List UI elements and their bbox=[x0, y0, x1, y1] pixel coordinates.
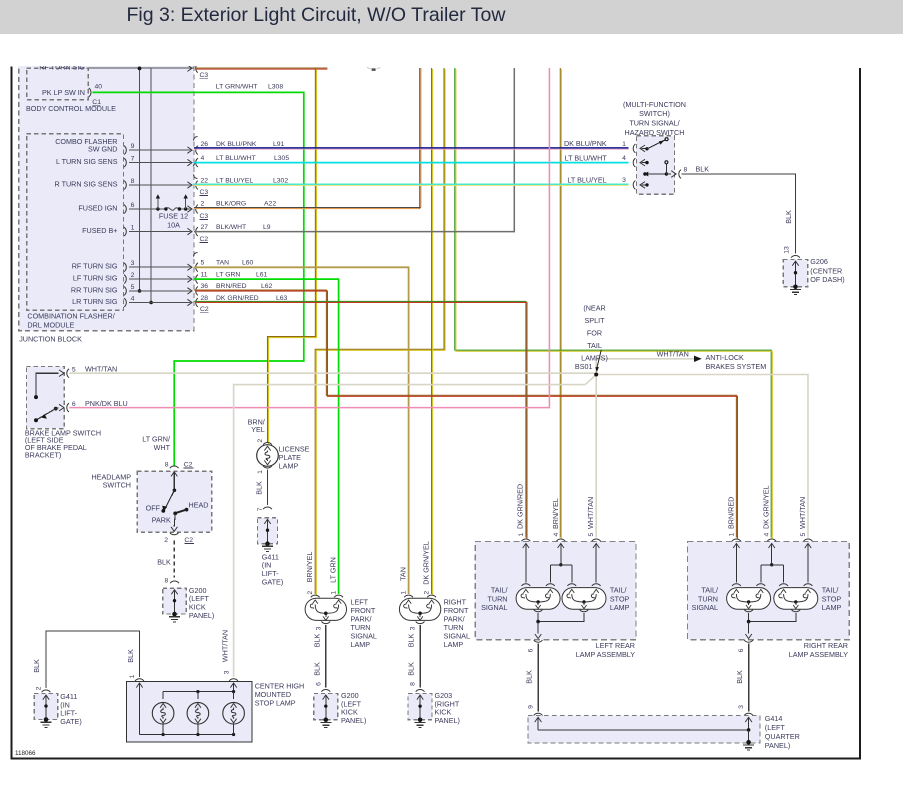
svg-text:1: 1 bbox=[129, 674, 136, 678]
svg-text:TAIL/: TAIL/ bbox=[610, 586, 627, 595]
svg-text:118066: 118066 bbox=[15, 750, 36, 757]
svg-text:STOP: STOP bbox=[610, 594, 630, 603]
svg-text:BS01: BS01 bbox=[575, 362, 593, 371]
svg-text:6: 6 bbox=[72, 401, 76, 408]
svg-text:2: 2 bbox=[131, 272, 135, 279]
svg-text:4: 4 bbox=[131, 296, 135, 303]
svg-text:BLK: BLK bbox=[696, 164, 710, 173]
svg-text:L60: L60 bbox=[242, 260, 254, 267]
svg-text:26: 26 bbox=[201, 141, 209, 148]
svg-text:LT BLU/WHT: LT BLU/WHT bbox=[565, 153, 608, 162]
svg-text:RR TURN SIG: RR TURN SIG bbox=[71, 285, 118, 294]
svg-text:R TURN SIG SENS: R TURN SIG SENS bbox=[55, 179, 118, 188]
svg-text:5: 5 bbox=[131, 284, 135, 291]
svg-text:LAMP ASSEMBLY: LAMP ASSEMBLY bbox=[576, 650, 635, 659]
svg-text:L62: L62 bbox=[261, 283, 273, 290]
svg-text:PANEL): PANEL) bbox=[189, 611, 214, 620]
svg-text:1: 1 bbox=[622, 141, 626, 148]
svg-text:BLK: BLK bbox=[784, 210, 793, 224]
svg-text:DK BLU/PNK: DK BLU/PNK bbox=[216, 141, 257, 148]
svg-text:SPLIT: SPLIT bbox=[585, 316, 606, 325]
svg-text:TURN SIGNAL/: TURN SIGNAL/ bbox=[629, 119, 679, 128]
svg-text:BRN/YEL: BRN/YEL bbox=[305, 552, 314, 583]
svg-text:QUARTER: QUARTER bbox=[765, 732, 800, 741]
svg-text:BLK: BLK bbox=[126, 649, 135, 663]
svg-text:5: 5 bbox=[201, 260, 205, 267]
svg-text:8: 8 bbox=[684, 166, 688, 173]
svg-text:PANEL): PANEL) bbox=[435, 716, 460, 725]
svg-text:BLK: BLK bbox=[312, 662, 321, 676]
svg-text:C3: C3 bbox=[200, 213, 209, 220]
svg-text:BLK/ORG: BLK/ORG bbox=[216, 200, 246, 207]
svg-text:4: 4 bbox=[553, 533, 560, 537]
svg-text:JUNCTION BLOCK: JUNCTION BLOCK bbox=[19, 334, 82, 343]
svg-text:C2: C2 bbox=[200, 306, 209, 313]
svg-text:9: 9 bbox=[527, 705, 534, 709]
svg-text:LAMP: LAMP bbox=[822, 603, 842, 612]
svg-text:LT BLU/YEL: LT BLU/YEL bbox=[216, 177, 253, 184]
svg-text:6: 6 bbox=[131, 202, 135, 209]
svg-text:BRN/RED: BRN/RED bbox=[726, 497, 735, 529]
svg-text:DK GRN/YEL: DK GRN/YEL bbox=[762, 485, 771, 529]
svg-text:G206: G206 bbox=[810, 257, 828, 266]
svg-text:STOP LAMP: STOP LAMP bbox=[255, 698, 296, 707]
svg-text:3: 3 bbox=[622, 177, 626, 184]
svg-text:TAN: TAN bbox=[216, 260, 229, 267]
svg-text:TAIL: TAIL bbox=[587, 341, 602, 350]
svg-text:27: 27 bbox=[201, 224, 209, 231]
svg-text:SIGNAL: SIGNAL bbox=[692, 603, 718, 612]
svg-text:LF TURN SIG: LF TURN SIG bbox=[73, 274, 118, 283]
svg-text:40: 40 bbox=[95, 84, 103, 91]
svg-text:LAMP: LAMP bbox=[351, 640, 371, 649]
svg-text:(LEFT: (LEFT bbox=[765, 723, 786, 732]
svg-text:2: 2 bbox=[423, 591, 430, 595]
svg-text:SIGNAL: SIGNAL bbox=[481, 603, 507, 612]
svg-text:6: 6 bbox=[527, 648, 534, 652]
svg-text:L305: L305 bbox=[274, 155, 289, 162]
svg-text:3: 3 bbox=[738, 705, 745, 709]
svg-text:5: 5 bbox=[800, 533, 807, 537]
svg-text:(NEAR: (NEAR bbox=[583, 304, 605, 313]
svg-text:LAMP: LAMP bbox=[444, 640, 464, 649]
svg-text:(MULTI-FUNCTION: (MULTI-FUNCTION bbox=[623, 100, 686, 109]
svg-text:L308: L308 bbox=[268, 84, 283, 91]
svg-text:BLK: BLK bbox=[735, 670, 744, 684]
svg-text:WHT/TAN: WHT/TAN bbox=[85, 364, 117, 373]
svg-text:LAMP ASSEMBLY: LAMP ASSEMBLY bbox=[789, 650, 848, 659]
svg-text:LT BLU/YEL: LT BLU/YEL bbox=[567, 176, 606, 185]
svg-text:BRACKET): BRACKET) bbox=[25, 451, 61, 460]
svg-text:BRAKES SYSTEM: BRAKES SYSTEM bbox=[706, 362, 767, 371]
svg-text:L63: L63 bbox=[276, 295, 288, 302]
svg-text:TURN: TURN bbox=[488, 594, 508, 603]
svg-text:TAIL/: TAIL/ bbox=[822, 586, 839, 595]
svg-text:LT GRN: LT GRN bbox=[328, 557, 337, 583]
svg-text:RF TURN SIG: RF TURN SIG bbox=[72, 262, 118, 271]
svg-text:28: 28 bbox=[201, 295, 209, 302]
svg-text:LR TURN SIG: LR TURN SIG bbox=[72, 297, 118, 306]
svg-text:C2: C2 bbox=[184, 461, 193, 468]
svg-text:4: 4 bbox=[764, 533, 771, 537]
svg-text:1: 1 bbox=[518, 533, 525, 537]
svg-text:SWITCH): SWITCH) bbox=[639, 109, 670, 118]
svg-text:1: 1 bbox=[330, 591, 337, 595]
svg-text:1: 1 bbox=[728, 533, 735, 537]
svg-text:C2: C2 bbox=[200, 236, 209, 243]
svg-text:WHT/TAN: WHT/TAN bbox=[798, 497, 807, 529]
svg-text:G414: G414 bbox=[765, 714, 783, 723]
svg-text:5: 5 bbox=[588, 533, 595, 537]
svg-text:3: 3 bbox=[131, 260, 135, 267]
svg-text:L61: L61 bbox=[256, 272, 268, 279]
svg-text:LT GRN: LT GRN bbox=[216, 272, 240, 279]
svg-text:DK GRN/RED: DK GRN/RED bbox=[216, 295, 259, 302]
svg-text:L9: L9 bbox=[263, 224, 271, 231]
svg-text:8: 8 bbox=[410, 682, 417, 686]
svg-text:L302: L302 bbox=[273, 177, 288, 184]
svg-text:RIGHT REAR: RIGHT REAR bbox=[804, 641, 848, 650]
svg-text:TAN: TAN bbox=[398, 567, 407, 581]
svg-text:10A: 10A bbox=[167, 220, 180, 229]
svg-text:2: 2 bbox=[307, 591, 314, 595]
svg-text:7: 7 bbox=[131, 156, 135, 163]
svg-text:BLK: BLK bbox=[255, 481, 264, 495]
svg-text:WHT/TAN: WHT/TAN bbox=[586, 497, 595, 529]
svg-text:OFF: OFF bbox=[146, 504, 161, 513]
svg-text:WHT: WHT bbox=[154, 443, 171, 452]
svg-text:DK GRN/RED: DK GRN/RED bbox=[516, 484, 525, 529]
svg-text:4: 4 bbox=[622, 155, 626, 162]
svg-text:13: 13 bbox=[784, 246, 791, 254]
svg-text:FUSE 12: FUSE 12 bbox=[159, 212, 188, 221]
svg-text:BLK: BLK bbox=[312, 634, 321, 648]
svg-text:PK LP SW IN: PK LP SW IN bbox=[42, 88, 85, 97]
svg-text:BLK: BLK bbox=[524, 670, 533, 684]
svg-text:LAMPS): LAMPS) bbox=[581, 354, 608, 363]
svg-text:BLK: BLK bbox=[32, 659, 41, 673]
svg-text:ANTI-LOCK: ANTI-LOCK bbox=[706, 353, 745, 362]
svg-text:3: 3 bbox=[315, 626, 322, 630]
svg-text:FUSED IGN: FUSED IGN bbox=[78, 203, 117, 212]
svg-text:9: 9 bbox=[131, 143, 135, 150]
svg-text:1: 1 bbox=[400, 591, 407, 595]
svg-text:TURN: TURN bbox=[698, 594, 718, 603]
svg-text:BLK/WHT: BLK/WHT bbox=[216, 224, 246, 231]
svg-text:FUSED B+: FUSED B+ bbox=[82, 226, 117, 235]
svg-text:5: 5 bbox=[72, 366, 76, 373]
svg-text:YEL: YEL bbox=[251, 425, 265, 434]
svg-text:STOP: STOP bbox=[822, 594, 842, 603]
svg-text:8: 8 bbox=[131, 178, 135, 185]
svg-text:3: 3 bbox=[223, 670, 230, 674]
svg-text:PANEL): PANEL) bbox=[341, 716, 366, 725]
svg-text:C3: C3 bbox=[200, 72, 209, 79]
svg-text:C2: C2 bbox=[184, 537, 193, 544]
svg-text:(CENTER: (CENTER bbox=[810, 266, 842, 275]
svg-text:BODY CONTROL MODULE: BODY CONTROL MODULE bbox=[26, 104, 116, 113]
svg-text:2: 2 bbox=[201, 200, 205, 207]
svg-text:1: 1 bbox=[257, 470, 264, 474]
svg-text:L TURN SIG SENS: L TURN SIG SENS bbox=[56, 157, 118, 166]
svg-text:TAIL/: TAIL/ bbox=[491, 586, 508, 595]
svg-text:BLK: BLK bbox=[407, 634, 416, 648]
svg-text:LAMP: LAMP bbox=[279, 461, 299, 470]
svg-text:Fig 3: Exterior Light Circuit,: Fig 3: Exterior Light Circuit, W/O Trail… bbox=[127, 4, 507, 26]
svg-text:6: 6 bbox=[738, 648, 745, 652]
svg-text:BLK: BLK bbox=[407, 662, 416, 676]
svg-text:8: 8 bbox=[165, 461, 169, 468]
svg-text:WHT/TAN: WHT/TAN bbox=[220, 630, 229, 662]
svg-text:2: 2 bbox=[36, 686, 43, 690]
svg-text:A22: A22 bbox=[264, 200, 276, 207]
svg-text:BRN/YEL: BRN/YEL bbox=[551, 498, 560, 529]
svg-text:PNK/DK BLU: PNK/DK BLU bbox=[85, 399, 128, 408]
svg-text:BLK: BLK bbox=[157, 558, 171, 567]
svg-text:36: 36 bbox=[201, 283, 209, 290]
svg-text:2: 2 bbox=[164, 537, 168, 544]
svg-text:LEFT REAR: LEFT REAR bbox=[596, 641, 635, 650]
svg-text:BRN/RED: BRN/RED bbox=[216, 283, 247, 290]
svg-text:L91: L91 bbox=[273, 141, 285, 148]
svg-text:LT GRN/WHT: LT GRN/WHT bbox=[216, 84, 258, 91]
svg-text:LAMP: LAMP bbox=[610, 603, 630, 612]
svg-text:8: 8 bbox=[165, 578, 169, 585]
svg-text:C3: C3 bbox=[200, 189, 209, 196]
svg-text:22: 22 bbox=[201, 177, 209, 184]
svg-text:SWITCH: SWITCH bbox=[103, 481, 131, 490]
svg-text:DK GRN/YEL: DK GRN/YEL bbox=[421, 541, 430, 585]
svg-text:3: 3 bbox=[410, 626, 417, 630]
svg-text:TAIL/: TAIL/ bbox=[701, 586, 718, 595]
svg-text:FOR: FOR bbox=[587, 329, 602, 338]
svg-text:2: 2 bbox=[257, 439, 264, 443]
svg-text:6: 6 bbox=[315, 682, 322, 686]
svg-text:PANEL): PANEL) bbox=[765, 741, 790, 750]
svg-text:LT BLU/WHT: LT BLU/WHT bbox=[216, 155, 256, 162]
svg-text:OF DASH): OF DASH) bbox=[810, 275, 844, 284]
svg-text:HEAD: HEAD bbox=[189, 501, 209, 510]
svg-text:4: 4 bbox=[201, 155, 205, 162]
svg-text:WHT/TAN: WHT/TAN bbox=[657, 350, 689, 359]
svg-text:DRL MODULE: DRL MODULE bbox=[27, 320, 74, 329]
svg-text:DK BLU/PNK: DK BLU/PNK bbox=[564, 139, 607, 148]
svg-text:COMBINATION FLASHER/: COMBINATION FLASHER/ bbox=[27, 311, 114, 320]
svg-text:11: 11 bbox=[201, 272, 208, 279]
svg-text:PARK: PARK bbox=[152, 515, 171, 524]
svg-text:GATE): GATE) bbox=[262, 578, 283, 587]
svg-text:1: 1 bbox=[131, 225, 135, 232]
svg-text:GATE): GATE) bbox=[60, 717, 81, 726]
svg-text:SW GND: SW GND bbox=[88, 145, 118, 154]
svg-text:7: 7 bbox=[257, 507, 264, 511]
